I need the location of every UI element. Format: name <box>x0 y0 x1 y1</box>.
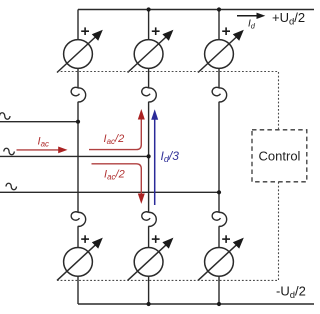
wire leg3 top <box>218 10 220 40</box>
AC phase line 2 <box>0 155 149 157</box>
wire leg2 valve-coil <box>148 68 150 88</box>
thyristor valve V3 <box>128 27 174 72</box>
thyristor valve V6 <box>128 235 174 280</box>
junction dot AC1-leg1 <box>76 120 80 124</box>
junction dot bottom bus leg3 <box>217 302 221 306</box>
junction dot AC2-leg2 <box>147 154 151 158</box>
inductor L2 top <box>142 87 157 102</box>
thyristor valve V1 <box>57 27 103 72</box>
thyristor valve V2 <box>198 235 244 280</box>
wire leg1 middle <box>77 102 79 212</box>
wire leg1 valve-coil <box>77 68 79 88</box>
red Iac arrow <box>17 147 68 154</box>
AC source tilde 1 <box>0 113 10 119</box>
wire leg3 valve-coil <box>218 68 220 88</box>
control block <box>252 130 307 182</box>
dashed gate line top valves <box>57 72 279 130</box>
junction dot top bus leg3 <box>217 7 221 11</box>
inductor L3 top <box>212 87 227 102</box>
AC source tilde 2 <box>4 148 15 154</box>
AC phase line 3 <box>0 191 219 193</box>
bottom DC bus <box>78 303 314 305</box>
wire leg3 coil-valve <box>218 226 220 247</box>
wire leg3 middle <box>218 102 220 212</box>
wire leg1 coil-valve <box>77 226 79 247</box>
AC source tilde 3 <box>6 183 17 189</box>
junction dot bottom bus leg2 <box>147 302 151 306</box>
thyristor valve V4 <box>57 235 103 280</box>
svg-text:+Ud/2: +Ud/2 <box>272 10 305 28</box>
junction dot top bus leg2 <box>147 7 151 11</box>
red Iac/2 upper path <box>89 109 145 150</box>
wire leg2 top <box>148 10 150 40</box>
wire leg3 bottom <box>218 276 220 304</box>
Id arrow top right <box>237 13 265 19</box>
wire leg1 top <box>77 10 79 40</box>
red Iac/2 lower path <box>92 164 145 204</box>
wire leg1 bottom <box>77 276 79 304</box>
wire leg2 bottom <box>148 276 150 304</box>
inductor L2 bottom <box>142 212 157 227</box>
AC phase line 1 <box>0 121 78 123</box>
dashed gate line bottom valves <box>57 182 279 280</box>
svg-text:Id/3: Id/3 <box>161 149 180 164</box>
inductor L3 bottom <box>212 212 227 227</box>
blue Id/3 arrow <box>151 109 158 205</box>
wire leg2 middle <box>148 102 150 212</box>
inductor L1 top <box>71 87 86 102</box>
inductor L1 bottom <box>71 212 86 227</box>
svg-text:Control: Control <box>259 149 301 164</box>
wire leg2 coil-valve <box>148 226 150 247</box>
top DC bus <box>78 9 314 11</box>
thyristor valve V5 <box>198 27 244 72</box>
junction dot AC3-leg3 <box>217 190 221 194</box>
